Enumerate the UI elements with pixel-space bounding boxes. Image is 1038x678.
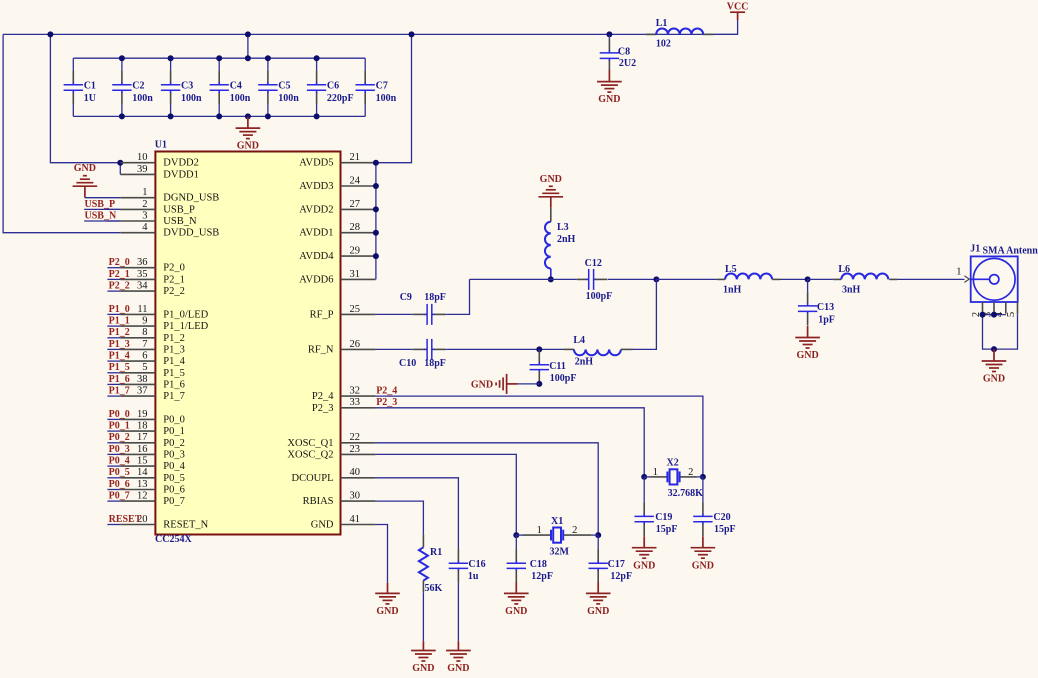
pin 27 AVDD2 xyxy=(341,208,376,210)
junction top rail xyxy=(216,55,222,61)
svg-text:1U: 1U xyxy=(84,93,96,104)
svg-text:17: 17 xyxy=(137,432,148,443)
wire C11 to ground xyxy=(518,383,540,385)
svg-text:P0_1: P0_1 xyxy=(163,426,185,437)
pin 19 P0_0 xyxy=(120,418,155,420)
wire net P0_1 xyxy=(107,430,120,432)
pin 11 P1_0/LED xyxy=(120,313,155,315)
svg-text:SMA Antenna: SMA Antenna xyxy=(983,246,1038,257)
pin 4 DVDD_USB xyxy=(120,232,155,234)
svg-text:GND: GND xyxy=(505,606,527,617)
pin 28 AVDD1 xyxy=(341,232,376,234)
junction top rail gnd tap xyxy=(245,55,251,61)
wire L6 to J1 pin1 xyxy=(964,276,969,283)
svg-text:P1_1: P1_1 xyxy=(109,316,130,327)
svg-text:11: 11 xyxy=(137,304,147,315)
svg-text:2U2: 2U2 xyxy=(619,58,636,69)
resistor R1 xyxy=(422,535,424,548)
capacitor C2 xyxy=(121,58,123,70)
svg-text:RF_P: RF_P xyxy=(310,309,334,320)
capacitor C16 xyxy=(457,549,459,561)
svg-text:1: 1 xyxy=(956,266,961,277)
svg-text:AVDD6: AVDD6 xyxy=(299,274,333,285)
svg-text:C16: C16 xyxy=(468,559,485,570)
junction top rail xyxy=(265,55,271,61)
junction C13 node xyxy=(805,276,811,282)
wire cap bank top rail xyxy=(73,57,365,59)
junction C8 xyxy=(606,31,612,37)
svg-text:19: 19 xyxy=(137,409,148,420)
svg-text:P1_0/LED: P1_0/LED xyxy=(163,309,208,320)
wire net P1_5 xyxy=(107,372,120,374)
wire net P1_0 xyxy=(107,313,120,315)
pin 25 RF_P xyxy=(341,313,376,315)
svg-text:29: 29 xyxy=(350,246,361,257)
svg-text:P2_4: P2_4 xyxy=(312,391,334,402)
svg-text:22: 22 xyxy=(350,432,361,443)
svg-text:USB_N: USB_N xyxy=(85,210,117,221)
pin 16 P0_3 xyxy=(120,453,155,455)
svg-text:2nH: 2nH xyxy=(557,234,576,245)
wire GND pin41 xyxy=(376,525,388,583)
wire DVDD2 to DVDD1 xyxy=(119,163,121,175)
svg-text:P0_5: P0_5 xyxy=(109,467,130,478)
junction AVDD xyxy=(373,183,379,189)
svg-text:6: 6 xyxy=(142,351,147,362)
svg-text:1u: 1u xyxy=(468,571,479,582)
svg-text:2nH: 2nH xyxy=(575,356,594,367)
svg-text:31: 31 xyxy=(350,269,361,280)
svg-text:32: 32 xyxy=(350,386,361,397)
pin 35 P2_1 xyxy=(120,278,155,280)
svg-text:DCOUPL: DCOUPL xyxy=(291,473,333,484)
junction X2 pin1 xyxy=(641,474,647,480)
svg-text:C18: C18 xyxy=(530,559,547,570)
wire R1 to ground xyxy=(422,592,424,641)
junction AVDD drop xyxy=(409,31,415,37)
crystal X2 xyxy=(644,476,650,478)
wire net P0_4 xyxy=(107,465,120,467)
wire net USB_N xyxy=(107,220,120,222)
pin 36 P2_0 xyxy=(120,267,155,269)
svg-text:1: 1 xyxy=(653,467,658,478)
inductor L4 xyxy=(563,348,574,350)
svg-text:7: 7 xyxy=(142,339,147,350)
pin 26 RF_N xyxy=(341,348,376,350)
svg-text:P0_0: P0_0 xyxy=(163,414,185,425)
junction C12/L4 node xyxy=(653,276,659,282)
pin 29 AVDD4 xyxy=(341,255,376,257)
pin 34 P2_2 xyxy=(120,290,155,292)
wire net P0_2 xyxy=(107,442,120,444)
svg-text:2: 2 xyxy=(142,199,147,210)
svg-text:P1_2: P1_2 xyxy=(109,327,130,338)
wire node to L6 xyxy=(808,278,834,280)
junction bottom rail gnd tap xyxy=(245,113,251,119)
capacitor C13 xyxy=(807,279,809,291)
connector J1 SMA Antenna xyxy=(971,256,1018,302)
svg-text:DVDD1: DVDD1 xyxy=(163,169,199,180)
pin 6 P1_4 xyxy=(120,360,155,362)
wire net P0_6 xyxy=(107,489,120,491)
svg-text:P1_7: P1_7 xyxy=(109,386,130,397)
wire L6 to J1 xyxy=(897,278,964,280)
svg-text:P1_3: P1_3 xyxy=(109,339,130,350)
svg-text:24: 24 xyxy=(350,175,361,186)
svg-text:C19: C19 xyxy=(655,512,672,523)
capacitor C12 xyxy=(577,278,587,280)
svg-text:VCC: VCC xyxy=(727,1,749,12)
svg-text:38: 38 xyxy=(137,374,148,385)
junction bottom rail xyxy=(168,113,174,119)
wire DCOUPL xyxy=(376,478,459,549)
svg-text:32M: 32M xyxy=(550,546,570,557)
pin 2 J1 xyxy=(982,302,984,314)
ground R1 xyxy=(422,641,424,650)
wire XOSC_Q2 xyxy=(376,454,517,535)
pin 23 XOSC_Q2 xyxy=(341,453,376,455)
wire RBIAS xyxy=(376,501,424,535)
pin 33 P2_3 xyxy=(341,407,376,409)
svg-text:U1: U1 xyxy=(155,140,167,151)
svg-text:P0_7: P0_7 xyxy=(109,491,130,502)
wire net P1_3 xyxy=(107,348,120,350)
svg-text:RESET: RESET xyxy=(109,514,142,525)
svg-text:USB_N: USB_N xyxy=(163,216,197,227)
pin 2 USB_P xyxy=(120,208,155,210)
wire net RESET xyxy=(107,524,120,526)
svg-text:8: 8 xyxy=(142,327,147,338)
svg-text:L4: L4 xyxy=(573,335,585,346)
svg-text:40: 40 xyxy=(350,467,361,478)
junction J1 shield bottom xyxy=(991,346,997,352)
svg-text:C10: C10 xyxy=(399,358,416,369)
wire J1 shield pins xyxy=(983,314,1006,316)
svg-text:P1_3: P1_3 xyxy=(163,344,185,355)
svg-text:P0_2: P0_2 xyxy=(109,432,130,443)
wire net P0_7 xyxy=(107,500,120,502)
junction bottom rail xyxy=(314,113,320,119)
svg-text:P2_3: P2_3 xyxy=(376,397,397,408)
pin 5 P1_5 xyxy=(120,372,155,374)
svg-text:P1_6: P1_6 xyxy=(109,374,130,385)
svg-text:C5: C5 xyxy=(278,81,290,92)
pin 38 P1_6 xyxy=(120,383,155,385)
junction cap bank drop xyxy=(245,31,251,37)
capacitor C18 xyxy=(515,535,517,549)
svg-text:GND: GND xyxy=(633,560,655,571)
svg-text:P2_3: P2_3 xyxy=(312,403,334,414)
svg-text:23: 23 xyxy=(350,444,361,455)
svg-text:GND: GND xyxy=(471,380,493,391)
svg-text:12pF: 12pF xyxy=(531,571,553,582)
ground C8 xyxy=(608,70,610,82)
wire net P2_2 xyxy=(107,290,120,292)
wire drop to DVDD2 xyxy=(50,34,120,162)
svg-text:C2: C2 xyxy=(132,81,144,92)
svg-text:X2: X2 xyxy=(667,458,679,469)
svg-text:26: 26 xyxy=(350,339,361,350)
svg-text:P2_0: P2_0 xyxy=(163,263,185,274)
wire cap bank bottom rail xyxy=(73,115,365,117)
wire RF_N to C10 xyxy=(376,348,412,350)
pin 8 P1_2 xyxy=(120,337,155,339)
pin 13 P0_6 xyxy=(120,489,155,491)
junction top rail xyxy=(168,55,174,61)
svg-text:P0_2: P0_2 xyxy=(163,438,185,449)
junction X1 pin2 xyxy=(595,532,601,538)
svg-text:C20: C20 xyxy=(713,512,730,523)
svg-text:18: 18 xyxy=(137,421,148,432)
svg-text:2: 2 xyxy=(572,525,577,536)
svg-text:18pF: 18pF xyxy=(424,358,446,369)
svg-text:USB_P: USB_P xyxy=(163,204,195,215)
svg-text:DVDD_USB: DVDD_USB xyxy=(163,228,219,239)
svg-text:14: 14 xyxy=(137,467,148,478)
capacitor C3 xyxy=(170,58,172,70)
pin 32 P2_4 xyxy=(341,395,376,397)
pin 41 GND xyxy=(341,524,376,526)
svg-text:L5: L5 xyxy=(725,264,737,275)
junction AVDD xyxy=(373,253,379,259)
pin 3 USB_N xyxy=(120,220,155,222)
svg-text:10: 10 xyxy=(137,152,148,163)
svg-text:13: 13 xyxy=(137,479,148,490)
capacitor C9 xyxy=(411,313,413,315)
svg-text:9: 9 xyxy=(142,316,147,327)
svg-text:P0_3: P0_3 xyxy=(109,444,130,455)
capacitor C6 xyxy=(316,58,318,70)
svg-text:220pF: 220pF xyxy=(327,93,354,104)
svg-text:P0_0: P0_0 xyxy=(109,409,130,420)
svg-text:P1_5: P1_5 xyxy=(163,368,185,379)
wire C12 to L5 node xyxy=(608,278,656,280)
svg-text:5: 5 xyxy=(1006,312,1017,317)
capacitor C19 xyxy=(643,477,645,502)
ground C13 xyxy=(807,326,809,338)
svg-text:P0_1: P0_1 xyxy=(109,421,130,432)
svg-text:P1_7: P1_7 xyxy=(163,391,185,402)
svg-text:GND: GND xyxy=(587,606,609,617)
svg-text:RBIAS: RBIAS xyxy=(303,496,334,507)
wire DGND_USB xyxy=(85,197,120,199)
svg-text:34: 34 xyxy=(137,281,148,292)
svg-text:J1: J1 xyxy=(970,244,980,255)
svg-text:C4: C4 xyxy=(230,81,242,92)
ground J1 xyxy=(993,349,995,361)
wire net P2_3 xyxy=(376,408,645,477)
wire USB_N xyxy=(84,220,120,222)
svg-text:P2_1: P2_1 xyxy=(163,274,185,285)
junction J1 pin2 xyxy=(980,312,986,318)
svg-text:DVDD2: DVDD2 xyxy=(163,158,199,169)
svg-text:P0_7: P0_7 xyxy=(163,496,185,507)
wire net P1_6 xyxy=(107,383,120,385)
svg-text:P1_0: P1_0 xyxy=(109,304,130,315)
svg-text:P0_4: P0_4 xyxy=(109,456,130,467)
svg-text:L1: L1 xyxy=(656,18,668,29)
power port VCC xyxy=(737,12,739,20)
svg-text:100n: 100n xyxy=(376,93,397,104)
svg-text:P0_6: P0_6 xyxy=(163,485,185,496)
junction bottom rail xyxy=(216,113,222,119)
svg-text:3: 3 xyxy=(142,210,147,221)
svg-text:28: 28 xyxy=(350,222,361,233)
junction at x50 top rail xyxy=(47,31,53,37)
pin 12 P0_7 xyxy=(120,500,155,502)
svg-text:GND: GND xyxy=(412,663,434,674)
svg-text:P0_3: P0_3 xyxy=(163,449,185,460)
svg-text:RESET_N: RESET_N xyxy=(163,520,208,531)
svg-text:P1_5: P1_5 xyxy=(109,362,130,373)
pin 39 DVDD1 xyxy=(120,173,155,175)
svg-text:XOSC_Q2: XOSC_Q2 xyxy=(287,449,333,460)
svg-text:100n: 100n xyxy=(181,93,202,104)
svg-text:P2_4: P2_4 xyxy=(376,385,397,396)
svg-text:32.768K: 32.768K xyxy=(668,488,704,499)
capacitor C17 xyxy=(597,535,599,549)
pin 37 P1_7 xyxy=(120,395,155,397)
junction bottom rail xyxy=(265,113,271,119)
ground pin41 xyxy=(387,583,389,594)
svg-text:15: 15 xyxy=(137,456,148,467)
pin 3 J1 xyxy=(993,302,995,314)
wire RF_P to C9 xyxy=(376,313,412,315)
svg-text:15pF: 15pF xyxy=(656,524,678,535)
svg-text:41: 41 xyxy=(350,514,361,525)
inductor L1 xyxy=(646,33,656,35)
svg-text:P1_4: P1_4 xyxy=(109,351,130,362)
wire node to L5 xyxy=(656,278,717,280)
pin 10 DVDD2 xyxy=(120,162,155,164)
svg-text:GND: GND xyxy=(598,94,620,105)
svg-text:AVDD4: AVDD4 xyxy=(299,251,334,262)
junction AVDD xyxy=(373,230,379,236)
svg-text:P1_2: P1_2 xyxy=(163,333,185,344)
inductor L6 xyxy=(833,278,841,280)
svg-text:12pF: 12pF xyxy=(610,571,632,582)
svg-text:AVDD5: AVDD5 xyxy=(299,158,333,169)
pin 20 RESET_N xyxy=(120,524,155,526)
capacitor C4 xyxy=(218,58,220,70)
pin 18 P0_1 xyxy=(120,430,155,432)
svg-text:56K: 56K xyxy=(425,583,443,594)
pin 30 RBIAS xyxy=(341,500,376,502)
capacitor C1 xyxy=(72,58,74,70)
svg-text:P0_5: P0_5 xyxy=(163,473,185,484)
svg-text:100n: 100n xyxy=(278,93,299,104)
pin 17 P0_2 xyxy=(120,442,155,444)
svg-text:C13: C13 xyxy=(817,302,834,313)
svg-text:GND: GND xyxy=(376,606,398,617)
svg-text:GND: GND xyxy=(74,163,96,174)
svg-text:P0_6: P0_6 xyxy=(109,479,130,490)
wire L4 to C12 node riser xyxy=(633,279,657,349)
wire net P2_4 xyxy=(376,396,703,477)
svg-text:35: 35 xyxy=(137,269,148,280)
pin 7 P1_3 xyxy=(120,348,155,350)
pin 4 J1 xyxy=(1005,302,1007,314)
svg-text:C8: C8 xyxy=(618,46,630,57)
svg-text:X1: X1 xyxy=(551,516,563,527)
svg-text:12: 12 xyxy=(137,491,148,502)
svg-text:36: 36 xyxy=(137,257,148,268)
pin 22 XOSC_Q1 xyxy=(341,442,376,444)
capacitor C11 xyxy=(538,349,540,350)
wire net USB_P xyxy=(107,208,120,210)
pin 15 P0_4 xyxy=(120,465,155,467)
ground C19 xyxy=(643,536,645,548)
wire RF mid row xyxy=(470,278,577,280)
svg-text:C11: C11 xyxy=(549,361,566,372)
wire drop to AVDD bus xyxy=(376,34,412,162)
svg-text:1pF: 1pF xyxy=(818,315,835,326)
wire drop to cap bank xyxy=(247,34,249,58)
svg-text:33: 33 xyxy=(350,397,361,408)
ground C11 sideways xyxy=(507,383,518,385)
wire C16 to ground xyxy=(457,570,459,582)
svg-text:39: 39 xyxy=(137,164,148,175)
svg-text:L6: L6 xyxy=(838,264,850,275)
junction top rail xyxy=(119,55,125,61)
wire C10 to L4 xyxy=(446,348,563,350)
junction DVDD2 xyxy=(117,160,123,166)
svg-text:21: 21 xyxy=(350,152,361,163)
svg-text:GND: GND xyxy=(447,663,469,674)
svg-text:USB_P: USB_P xyxy=(85,199,116,210)
svg-text:C7: C7 xyxy=(376,81,388,92)
ground C16 xyxy=(457,641,459,650)
wire AVDD bus xyxy=(375,163,377,280)
svg-text:18pF: 18pF xyxy=(424,292,446,303)
pin 5 J1 xyxy=(1017,302,1019,314)
svg-text:P1_1/LED: P1_1/LED xyxy=(163,321,208,332)
junction top rail xyxy=(314,55,320,61)
pin 1 DGND_USB xyxy=(120,197,155,199)
wire net P0_0 xyxy=(107,418,120,420)
svg-text:37: 37 xyxy=(137,386,148,397)
op-amp U1 CC254X chip body xyxy=(155,152,340,535)
svg-text:GND: GND xyxy=(692,560,714,571)
svg-text:102: 102 xyxy=(656,39,671,50)
svg-text:GND: GND xyxy=(540,174,562,185)
wire USB_P xyxy=(84,208,120,210)
junction AVDD xyxy=(373,206,379,212)
svg-text:5: 5 xyxy=(142,362,147,373)
ground C17 xyxy=(597,582,599,593)
inductor L3 xyxy=(550,208,552,222)
wire XOSC_Q1 xyxy=(376,443,599,535)
svg-text:2: 2 xyxy=(688,467,693,478)
svg-text:C9: C9 xyxy=(400,292,412,303)
svg-text:AVDD3: AVDD3 xyxy=(299,181,333,192)
svg-text:C1: C1 xyxy=(84,81,96,92)
svg-text:GND: GND xyxy=(237,141,259,152)
pin 31 AVDD6 xyxy=(341,278,376,280)
wire net P1_7 xyxy=(107,395,120,397)
capacitor C8 xyxy=(608,34,610,38)
svg-text:16: 16 xyxy=(137,444,148,455)
svg-text:CC254X: CC254X xyxy=(155,534,192,545)
svg-text:AVDD1: AVDD1 xyxy=(299,228,333,239)
svg-text:GND: GND xyxy=(983,374,1005,385)
capacitor C20 xyxy=(702,477,704,502)
wire net P2_0 xyxy=(107,267,120,269)
svg-text:GND: GND xyxy=(311,520,334,531)
svg-text:P2_2: P2_2 xyxy=(109,281,130,292)
svg-text:1: 1 xyxy=(537,525,542,536)
svg-text:4: 4 xyxy=(142,222,148,233)
